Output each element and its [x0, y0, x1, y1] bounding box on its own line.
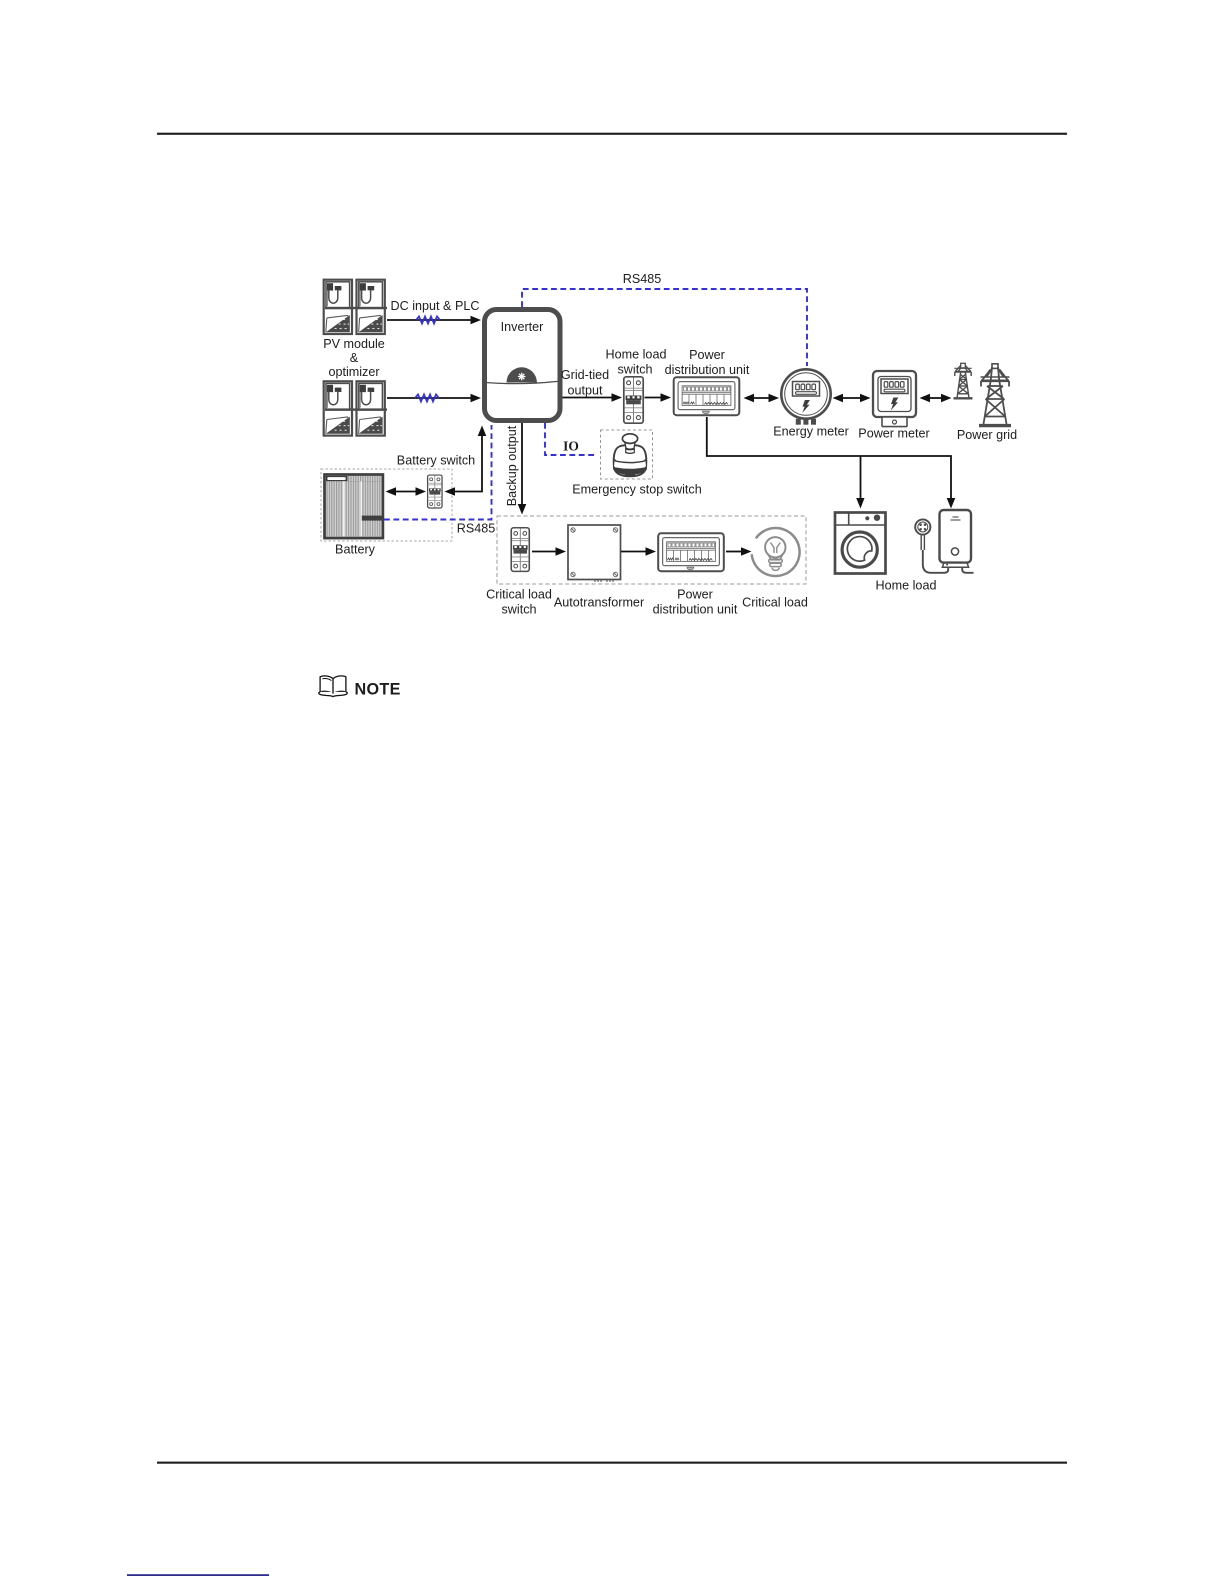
- wire: PV1 to inverter: [387, 319, 472, 321]
- wire: battery switch to inverter (L-shape, bidirectional): [453, 434, 482, 492]
- washer branch wire: [860, 456, 862, 499]
- svg-text:Inverter: Inverter: [501, 320, 544, 334]
- svg-text:Home load: Home load: [876, 579, 937, 593]
- arrowhead into inverter (row2): [471, 394, 482, 403]
- svg-text:switch: switch: [618, 363, 653, 377]
- svg-text:Autotransformer: Autotransformer: [554, 596, 644, 610]
- wire: PDU to energy meter (bidirectional): [752, 397, 771, 399]
- PV string 1 rail: [325, 307, 387, 309]
- svg-text:Critical load: Critical load: [486, 588, 552, 602]
- svg-text:Battery switch: Battery switch: [397, 454, 475, 468]
- IO dashed wire: [545, 423, 597, 455]
- page bottom rule: [157, 1462, 1067, 1464]
- emergency stop dotted enclosure: [601, 430, 653, 479]
- arrowhead into inverter (row1): [471, 316, 482, 325]
- critical load dashed enclosure: [497, 516, 806, 584]
- battery dotted enclosure: [321, 469, 452, 541]
- power meter: [873, 371, 916, 427]
- emergency stop switch: [614, 434, 647, 477]
- PLC squiggle 2: [415, 394, 439, 401]
- PV string 2 unit A: [324, 381, 352, 435]
- wire: autotransformer to PDU2: [621, 551, 646, 553]
- wire: critical switch to autotransformer: [532, 551, 556, 553]
- washing machine: [835, 513, 886, 574]
- footer blue link underline: [127, 1574, 269, 1576]
- small tower: [954, 363, 973, 398]
- svg-text:&: &: [350, 351, 359, 365]
- PV string 1 unit B: [357, 280, 385, 334]
- svg-text:Battery: Battery: [335, 543, 376, 557]
- svg-text:Power meter: Power meter: [858, 427, 929, 441]
- wire: PDU2 to critical load: [726, 551, 742, 553]
- home load branch wire: [707, 417, 951, 499]
- PV string 1 unit A: [324, 280, 352, 334]
- shower head: [915, 519, 930, 534]
- svg-text:Energy meter: Energy meter: [773, 425, 849, 439]
- wire: switch to PDU: [645, 397, 662, 399]
- critical load bulb: [752, 528, 800, 576]
- wire: power meter to grid (bidirectional): [928, 397, 943, 399]
- autotransformer T1: [568, 525, 621, 582]
- wire: inverter to home load switch: [563, 397, 613, 399]
- wire: energy meter to power meter (bidirectional): [841, 397, 861, 399]
- svg-text:RS485: RS485: [457, 522, 496, 536]
- power distribution unit (grid): [674, 377, 740, 415]
- svg-text:RS485: RS485: [623, 272, 662, 286]
- inverter U1: [485, 310, 561, 421]
- svg-text:Backup output: Backup output: [505, 425, 519, 506]
- svg-text:Power: Power: [677, 588, 713, 602]
- svg-text:IO: IO: [563, 439, 579, 454]
- svg-text:Emergency stop switch: Emergency stop switch: [572, 483, 702, 497]
- PV string 2 rail: [325, 408, 387, 410]
- large tower: [979, 364, 1011, 426]
- note book icon: [319, 676, 347, 697]
- battery: [325, 475, 384, 539]
- PV string 2 unit B: [357, 381, 385, 435]
- PLC squiggle 1: [416, 316, 440, 323]
- svg-text:NOTE: NOTE: [355, 680, 401, 698]
- svg-text:DC input & PLC: DC input & PLC: [391, 299, 480, 313]
- svg-text:distribution unit: distribution unit: [665, 363, 750, 377]
- power distribution unit (backup): [658, 533, 724, 571]
- wire: PV2 to inverter: [387, 397, 472, 399]
- svg-text:Grid-tied: Grid-tied: [561, 368, 609, 382]
- svg-text:Critical load: Critical load: [742, 596, 808, 610]
- power grid towers: [954, 363, 1012, 425]
- svg-text:output: output: [567, 384, 603, 398]
- critical load switch: [511, 528, 529, 572]
- svg-text:distribution unit: distribution unit: [653, 603, 738, 617]
- battery switch: [428, 475, 442, 508]
- svg-text:Power grid: Power grid: [957, 428, 1017, 442]
- backup output wire: [521, 423, 523, 505]
- wire: battery to battery switch (bidirectional): [394, 491, 418, 493]
- energy meter: [781, 369, 830, 424]
- home load switch: [624, 377, 643, 423]
- svg-text:optimizer: optimizer: [328, 365, 379, 379]
- RS485 top dashed bus: [522, 289, 807, 366]
- water heater: [915, 510, 973, 573]
- svg-text:PV module: PV module: [323, 337, 385, 351]
- svg-text:switch: switch: [502, 603, 537, 617]
- page top rule: [157, 133, 1067, 135]
- svg-text:Power: Power: [689, 348, 725, 362]
- svg-text:Home load: Home load: [606, 348, 667, 362]
- RS485 dashed bus (battery): [384, 425, 492, 520]
